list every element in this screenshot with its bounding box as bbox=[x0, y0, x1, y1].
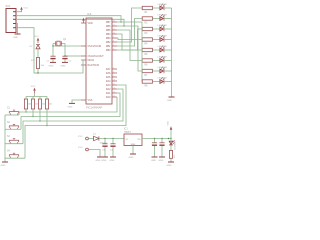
wire C4 to GND bbox=[112, 147, 114, 157]
svg-text:PIC16F84AP: PIC16F84AP bbox=[86, 105, 102, 109]
svg-text:LED3MM: LED3MM bbox=[158, 78, 167, 80]
pin OSC2 bbox=[81, 56, 104, 58]
svg-text:SV1: SV1 bbox=[6, 4, 11, 8]
wire S4 net to RA pin bbox=[25, 85, 126, 158]
pin RA7 bbox=[106, 67, 117, 71]
wire C3 top bbox=[104, 139, 106, 144]
wire R6 to LED6 bbox=[152, 60, 159, 62]
ground GND (C6) bbox=[159, 157, 166, 162]
junction C4 bbox=[112, 138, 113, 139]
wire C5 to GND bbox=[154, 146, 156, 157]
LED LED3 bbox=[158, 25, 167, 32]
svg-text:RB7: RB7 bbox=[106, 21, 111, 24]
ground GND (R10) bbox=[167, 162, 175, 167]
svg-text:VCC: VCC bbox=[24, 8, 29, 10]
svg-text:LED3MM: LED3MM bbox=[158, 36, 167, 38]
pin RA4 bbox=[106, 79, 117, 83]
ground GND (C3) bbox=[102, 157, 109, 162]
wire C6 top bbox=[161, 139, 163, 143]
diode D2 bbox=[30, 45, 41, 49]
svg-text:GND: GND bbox=[49, 65, 54, 67]
svg-text:RB0: RB0 bbox=[106, 49, 111, 52]
LED LED6 bbox=[158, 56, 167, 63]
wire SV1 pin3 to RB6 net bbox=[16, 19, 124, 26]
pin RB7 bbox=[106, 20, 117, 24]
svg-text:VDD: VDD bbox=[88, 22, 93, 25]
LED LED1 bbox=[158, 4, 167, 11]
junction RB6/PGC bbox=[123, 25, 124, 26]
pin T0CKI bbox=[81, 64, 99, 67]
wire RB pin to R5 bbox=[117, 34, 142, 50]
wire VCC rail (buttons) bbox=[26, 93, 47, 97]
ground GND (IC1) bbox=[129, 154, 137, 159]
resistor R1 bbox=[142, 6, 152, 14]
junction OSC2/C2 bbox=[64, 55, 65, 56]
svg-text:13: 13 bbox=[113, 20, 115, 22]
LED LED7 bbox=[158, 67, 167, 74]
wire R7 to LED7 bbox=[152, 70, 159, 72]
svg-text:RB3: RB3 bbox=[106, 37, 111, 40]
LED LED9 (power) bbox=[169, 140, 176, 149]
svg-text:VSS: VSS bbox=[88, 99, 93, 102]
svg-text:LED3MM: LED3MM bbox=[158, 25, 167, 27]
supply symbol VCC (MCLR) bbox=[34, 36, 39, 43]
svg-text:GND: GND bbox=[1, 165, 6, 167]
junction C3 bbox=[104, 138, 105, 139]
pushbutton S3 bbox=[7, 136, 19, 144]
wire LED cathode rail bbox=[171, 8, 173, 97]
pin MCLR bbox=[81, 60, 94, 62]
svg-text:16: 16 bbox=[113, 87, 115, 89]
pin RB2 bbox=[106, 40, 117, 44]
pin RB3 bbox=[106, 36, 117, 40]
svg-text:17: 17 bbox=[113, 83, 115, 85]
wire R6 bottom to net bbox=[25, 109, 27, 112]
pin RA6 bbox=[106, 71, 117, 75]
svg-text:X1-2: X1-2 bbox=[78, 147, 83, 149]
svg-text:6: 6 bbox=[113, 48, 114, 50]
junction R7/S2 net bbox=[32, 116, 33, 117]
svg-text:RA3: RA3 bbox=[106, 84, 111, 87]
svg-text:GND: GND bbox=[151, 160, 156, 162]
svg-text:RA4: RA4 bbox=[106, 80, 111, 83]
pin RA2 bbox=[106, 87, 117, 91]
ground GND (C1) bbox=[49, 62, 57, 67]
wire RB pin to R3 bbox=[117, 29, 142, 50]
ground GND (C2) bbox=[61, 62, 69, 67]
supply symbol VCC (rail) bbox=[168, 120, 173, 138]
svg-text:RA5: RA5 bbox=[106, 76, 111, 79]
svg-text:RA2: RA2 bbox=[106, 88, 111, 91]
wire R10 to GND bbox=[170, 158, 172, 161]
wire LED9 anode bbox=[170, 139, 172, 142]
wire button S3 row bbox=[5, 143, 23, 145]
wire R3 to LED3 bbox=[152, 28, 159, 30]
LED LED5 bbox=[158, 46, 167, 53]
resistor R1 bbox=[31, 58, 45, 69]
wire C1 to GND bbox=[52, 59, 54, 62]
LED LED8 bbox=[158, 77, 167, 84]
junction R9/S4 net bbox=[46, 125, 47, 126]
svg-text:VCC: VCC bbox=[34, 36, 39, 38]
wire C4 top bbox=[112, 139, 114, 144]
svg-text:RA0: RA0 bbox=[106, 96, 111, 99]
wire RB pin to R2 bbox=[117, 19, 142, 47]
svg-text:GND: GND bbox=[167, 100, 172, 102]
wire SV1 pin5 to MCLR net bbox=[16, 28, 38, 73]
wire R5 to LED5 bbox=[152, 49, 159, 51]
svg-text:GND: GND bbox=[68, 106, 73, 108]
pin RB5 bbox=[106, 28, 117, 32]
supply symbol VCC (VDD) bbox=[82, 18, 85, 23]
wire C6 to GND bbox=[161, 146, 163, 157]
svg-text:7805T: 7805T bbox=[124, 131, 131, 134]
capacitor C3 bbox=[102, 144, 108, 152]
wire D2 to R1 bbox=[37, 49, 39, 58]
op IC2 microcontroller PIC16F84AP bbox=[86, 12, 112, 110]
resistor R8 bbox=[38, 99, 45, 109]
wire LED5 to cathode rail bbox=[164, 49, 172, 51]
wire R4 to LED4 bbox=[152, 39, 159, 41]
junction R1/MCLR bbox=[37, 72, 38, 73]
wire VSS to GND bbox=[72, 100, 81, 103]
svg-text:LED3MM: LED3MM bbox=[175, 141, 177, 150]
wire LED4 to cathode rail bbox=[164, 39, 172, 41]
resistor R8 bbox=[142, 80, 152, 88]
wire S1 net to RA pin bbox=[19, 97, 117, 115]
terminal X1-2 bbox=[78, 147, 88, 151]
wire D1 to IC1 VI bbox=[99, 138, 124, 140]
wire S3 net to RA pin bbox=[23, 89, 123, 144]
wire LED3 to cathode rail bbox=[164, 28, 172, 30]
pin RA1 bbox=[106, 91, 117, 95]
wire R2 to LED2 bbox=[152, 18, 159, 20]
svg-text:GND: GND bbox=[159, 160, 164, 162]
svg-text:8: 8 bbox=[113, 40, 114, 42]
svg-text:IC2: IC2 bbox=[87, 12, 92, 16]
svg-text:RB5: RB5 bbox=[106, 29, 111, 32]
pin RB4 bbox=[106, 32, 117, 36]
LED LED4 bbox=[158, 35, 167, 42]
wire X1-1 to D1 bbox=[88, 138, 93, 140]
svg-text:GND: GND bbox=[61, 65, 66, 67]
resistor R7 bbox=[31, 99, 38, 109]
wire LED2 to cathode rail bbox=[164, 18, 172, 20]
LED LED2 bbox=[158, 14, 167, 21]
wire R6 top bbox=[25, 97, 27, 100]
wire SV1 pin2 to RB7 net bbox=[16, 16, 121, 22]
wire RB pin to R8 bbox=[117, 22, 142, 82]
junction R10 bbox=[168, 138, 169, 139]
pin RB1 bbox=[106, 44, 117, 48]
capacitor C6 bbox=[159, 143, 164, 145]
regulator IC1 7805T bbox=[124, 128, 142, 146]
svg-text:10k: 10k bbox=[42, 104, 45, 106]
svg-text:10k: 10k bbox=[35, 104, 38, 106]
svg-text:RB6: RB6 bbox=[106, 25, 111, 28]
capacitor C4 bbox=[110, 144, 116, 152]
wire LED8 to cathode rail bbox=[164, 81, 172, 83]
wire C3 to GND bbox=[104, 147, 106, 157]
svg-text:RA7: RA7 bbox=[106, 68, 111, 71]
svg-text:LED3MM: LED3MM bbox=[158, 46, 167, 48]
junction RB7/PGD bbox=[120, 21, 121, 22]
svg-text:12: 12 bbox=[113, 24, 115, 26]
diode D1 bbox=[93, 134, 107, 145]
wire R8 top bbox=[39, 97, 41, 100]
resistor R4 bbox=[142, 38, 152, 46]
svg-text:11: 11 bbox=[113, 28, 115, 30]
wire LED1 to cathode rail bbox=[164, 7, 172, 9]
resistor R10 bbox=[169, 151, 176, 159]
svg-text:GND: GND bbox=[96, 160, 101, 162]
resistor R6 bbox=[142, 59, 152, 67]
wire C2 to GND bbox=[64, 59, 66, 62]
wire R9 top bbox=[46, 97, 48, 100]
wire crystal right leg bbox=[64, 44, 66, 57]
svg-text:2: 2 bbox=[113, 71, 114, 73]
svg-text:GND: GND bbox=[102, 160, 107, 162]
pin RA3 bbox=[106, 83, 117, 87]
ground GND (VSS) bbox=[68, 103, 76, 108]
junction R6/S1 net bbox=[25, 111, 26, 112]
wire OSC1 net bbox=[53, 45, 81, 47]
pushbutton S1 bbox=[7, 108, 19, 116]
svg-text:VCC: VCC bbox=[31, 86, 36, 88]
pin VSS bbox=[81, 99, 93, 102]
svg-text:RB4: RB4 bbox=[106, 33, 111, 36]
junction OSC1/C1 bbox=[52, 45, 53, 46]
ground GND (buttons) bbox=[1, 162, 9, 167]
svg-text:MCLR: MCLR bbox=[88, 60, 95, 62]
capacitor C2 bbox=[62, 56, 72, 62]
wire S2 net to RA pin bbox=[21, 93, 120, 129]
wire button S4 row bbox=[5, 157, 25, 159]
wire RB pin to R1 bbox=[117, 8, 142, 42]
ground GND (C4) bbox=[110, 157, 117, 162]
svg-text:VCC: VCC bbox=[168, 120, 170, 125]
pin RA5 bbox=[106, 75, 117, 79]
wire R1 to MCLR bbox=[34, 60, 83, 73]
wire RB pin to R7 bbox=[117, 26, 142, 71]
svg-text:X1-1: X1-1 bbox=[78, 136, 83, 138]
ground GND (C5) bbox=[151, 157, 158, 162]
svg-text:10k: 10k bbox=[28, 104, 31, 106]
svg-text:7: 7 bbox=[113, 44, 114, 46]
svg-text:15: 15 bbox=[113, 91, 115, 93]
pin RB0 bbox=[106, 48, 117, 52]
supply symbol VCC (SV1) bbox=[20, 7, 28, 12]
svg-text:LED3MM: LED3MM bbox=[158, 57, 167, 59]
svg-text:OSC1/CLKIN: OSC1/CLKIN bbox=[88, 46, 102, 48]
ground GND (LED rail) bbox=[167, 97, 175, 102]
svg-text:9: 9 bbox=[113, 36, 114, 38]
svg-text:GND: GND bbox=[13, 37, 18, 39]
svg-text:3: 3 bbox=[113, 67, 114, 69]
wire OSC2 net bbox=[65, 55, 81, 57]
wire IC1 GND pin bbox=[132, 146, 134, 154]
svg-text:1: 1 bbox=[113, 75, 114, 77]
wire R7 bottom to net bbox=[32, 109, 34, 117]
junction C5 bbox=[154, 138, 155, 139]
svg-text:RB1: RB1 bbox=[106, 45, 111, 48]
wire SV1 pin4 to GND bbox=[16, 24, 18, 34]
wire button S2 row bbox=[5, 128, 21, 130]
svg-text:GND: GND bbox=[110, 160, 115, 162]
resistor R9 bbox=[45, 99, 52, 109]
junction C6 bbox=[161, 138, 162, 139]
pushbutton S2 bbox=[7, 122, 19, 130]
svg-text:RA1: RA1 bbox=[106, 92, 111, 95]
pin VDD bbox=[81, 22, 93, 25]
pin RA0 bbox=[106, 95, 117, 99]
wire SV1 pin1 to VCC bbox=[16, 10, 22, 12]
ground GND (X1-2) bbox=[96, 157, 104, 162]
svg-text:VO: VO bbox=[137, 139, 140, 141]
svg-text:18: 18 bbox=[113, 79, 115, 81]
pin OSC1 bbox=[81, 46, 101, 48]
resistor R2 bbox=[142, 17, 152, 25]
svg-text:RB2: RB2 bbox=[106, 41, 111, 44]
wire R9 bottom to net bbox=[46, 109, 48, 126]
resistor R6 bbox=[24, 99, 31, 109]
resistor R7 bbox=[142, 69, 152, 77]
pin RB6 bbox=[106, 24, 117, 28]
wire R8 bottom to net bbox=[39, 109, 41, 121]
svg-text:GND: GND bbox=[167, 165, 172, 167]
wire LED6 to cathode rail bbox=[164, 60, 172, 62]
svg-text:10: 10 bbox=[113, 32, 115, 34]
svg-text:RA4/T0CKI: RA4/T0CKI bbox=[88, 64, 100, 67]
wire IC1 VO rail bbox=[142, 138, 171, 140]
svg-text:GND: GND bbox=[129, 157, 134, 159]
junction R8/S3 net bbox=[39, 120, 40, 121]
svg-text:LED3MM: LED3MM bbox=[158, 4, 167, 6]
svg-text:OSC2/CLKOUT: OSC2/CLKOUT bbox=[88, 56, 105, 58]
connector SV1 bbox=[6, 4, 17, 32]
resistor R5 bbox=[142, 48, 152, 56]
capacitor C1 bbox=[47, 56, 56, 62]
terminal X1-1 bbox=[78, 136, 88, 140]
wire C5 top bbox=[154, 139, 156, 143]
wire button GND rail bbox=[4, 115, 6, 162]
svg-text:10k: 10k bbox=[49, 104, 52, 106]
wire R1 to LED1 bbox=[152, 7, 159, 9]
ground GND (SV1) bbox=[13, 34, 21, 39]
junction power LED bbox=[170, 138, 171, 139]
wire R7 top bbox=[32, 97, 34, 100]
wire LED9 to R10 bbox=[170, 145, 172, 151]
resistor R3 bbox=[142, 27, 152, 35]
crystal Q1 bbox=[53, 39, 67, 46]
wire RB pin to R4 bbox=[117, 38, 142, 40]
wire RB pin to R6 bbox=[117, 30, 142, 61]
svg-text:RA6: RA6 bbox=[106, 72, 111, 75]
svg-text:LED3MM: LED3MM bbox=[158, 67, 167, 69]
wire LED7 to cathode rail bbox=[164, 70, 172, 72]
wire R8 to LED8 bbox=[152, 81, 159, 83]
svg-text:14: 14 bbox=[113, 95, 115, 97]
wire crystal left leg bbox=[52, 44, 54, 57]
wire button S1 row bbox=[5, 114, 19, 116]
svg-text:LED3MM: LED3MM bbox=[158, 15, 167, 17]
capacitor C5 bbox=[152, 143, 157, 145]
wire X1-2 to GND bbox=[88, 150, 100, 157]
supply symbol VCC (buttons) bbox=[31, 86, 36, 93]
pushbutton S4 bbox=[7, 151, 19, 159]
